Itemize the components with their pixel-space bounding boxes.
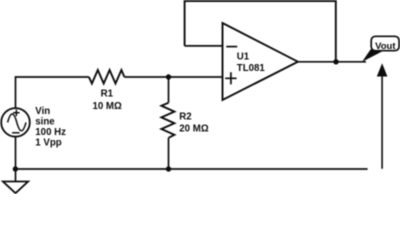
node A junction dot (R1/R2/op-amp + input): [166, 74, 171, 79]
wire: ground node stub down to ground symbol: [15, 169, 17, 182]
annotation arrow head pointing up at Vout: [377, 63, 388, 76]
voltage source V1 plus polarity mark: [13, 110, 20, 117]
wire: R2 bottom lead down to ground rail: [168, 138, 170, 169]
node D junction dot (output/feedback): [333, 59, 338, 64]
Vout flag rounded box: [371, 36, 399, 50]
svg-text:R2: R2: [179, 112, 191, 123]
voltage source V1 sine wave symbol: [8, 114, 26, 131]
wire: source V1 top terminal up and right to R1 left lead: [16, 77, 89, 108]
svg-text:TL081: TL081: [237, 63, 266, 74]
wire: inverting input from feedback corner to op-amp: [185, 45, 223, 47]
svg-text:Vout: Vout: [375, 41, 396, 52]
wire: feedback loop (up, across top, down to output node): [185, 1, 336, 62]
op-amp U1 inverting input minus mark: [226, 46, 237, 48]
svg-text:10 MΩ: 10 MΩ: [92, 101, 122, 112]
node B junction dot (R2 to bottom rail): [166, 166, 171, 171]
svg-text:100 Hz: 100 Hz: [35, 127, 66, 138]
ground symbol (triangle): [3, 182, 28, 194]
svg-text:sine: sine: [35, 116, 55, 127]
node C junction dot (source/ground/bottom rail): [13, 166, 18, 171]
wire: R1 right lead to op-amp non-inverting input (through node A): [124, 76, 222, 78]
voltage source V1 minus polarity mark: [12, 132, 19, 134]
svg-text:U1: U1: [237, 52, 250, 63]
svg-text:Vin: Vin: [35, 106, 50, 117]
voltage source V1 circle body: [1, 108, 30, 137]
resistor R2 (20 MΩ) body zigzag: [161, 103, 174, 138]
wire: node A down to R2 top lead: [168, 77, 170, 103]
Vout flag pointer tail: [362, 49, 383, 62]
resistor R1 (10 MΩ) body zigzag: [89, 70, 125, 84]
wire: source V1 bottom terminal down to ground node: [15, 137, 17, 169]
wire: op-amp output to Vout flag anchor: [298, 61, 366, 63]
svg-text:R1: R1: [101, 89, 114, 100]
op-amp U1 non-inverting input plus mark: [225, 72, 236, 84]
svg-text:20 MΩ: 20 MΩ: [179, 123, 209, 134]
svg-text:1 Vpp: 1 Vpp: [35, 137, 61, 148]
wire: bottom ground rail: [15, 168, 367, 170]
op-amp U1 triangle body: [223, 23, 298, 100]
annotation arrow stem (Vout measurement): [381, 76, 383, 169]
